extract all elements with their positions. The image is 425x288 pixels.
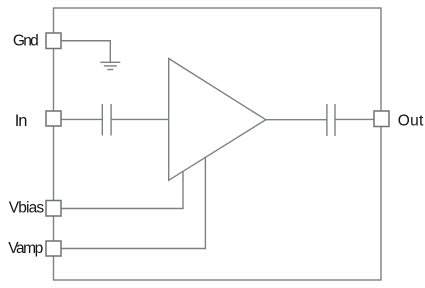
svg-text:Gnd: Gnd (13, 32, 39, 49)
svg-text:Vamp: Vamp (8, 240, 43, 257)
svg-text:Vbias: Vbias (9, 200, 45, 217)
svg-text:Out: Out (398, 112, 424, 129)
svg-text:In: In (15, 112, 28, 130)
